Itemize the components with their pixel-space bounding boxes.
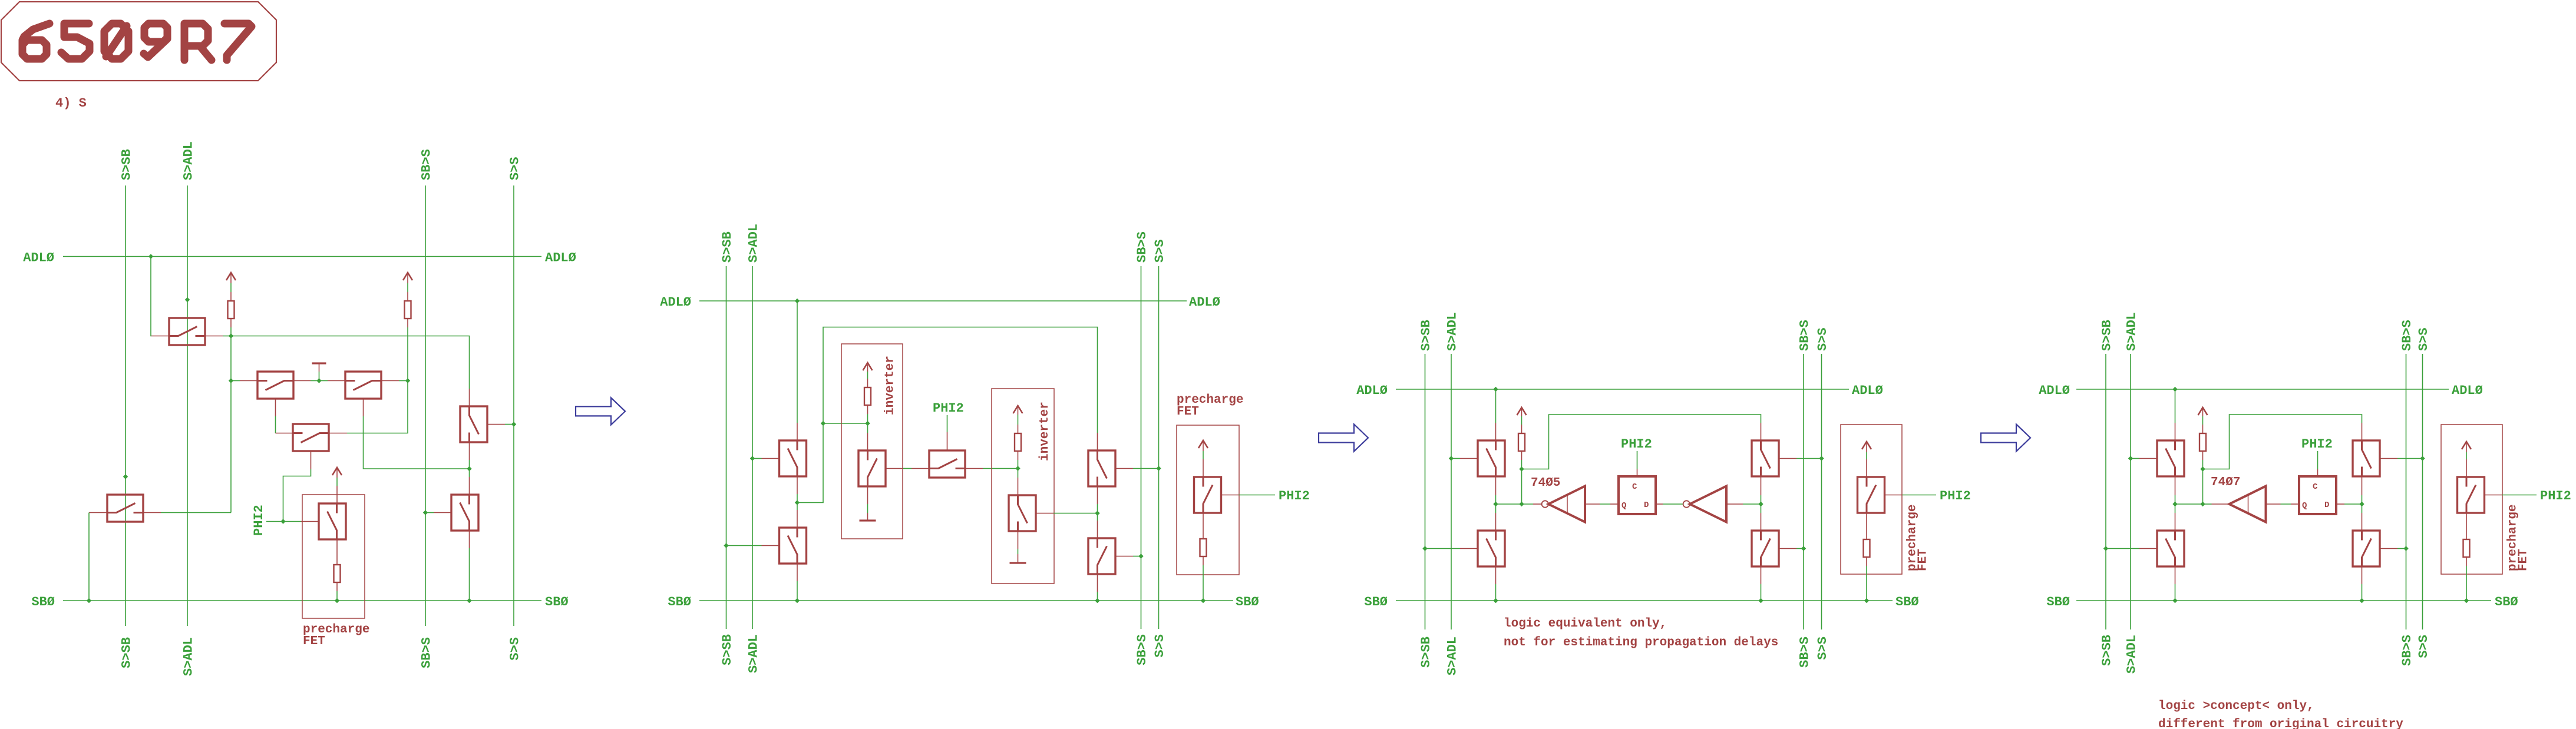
- junction node S between Q10 Q11: [795, 500, 800, 505]
- wire Q10 gate to S>ADL: [752, 458, 762, 459]
- svg-text:PHI2: PHI2: [1279, 489, 1310, 503]
- junction upper-left gate on S>ADL: [2128, 456, 2133, 460]
- wire upper-left gate to S>ADL: [2131, 458, 2139, 459]
- wire Q11 bottom to SB0: [797, 564, 798, 581]
- svg-text:S>ADL: S>ADL: [181, 141, 196, 180]
- wire upper-right gate to S>S: [1779, 458, 1796, 459]
- wire ADL0 down to upper-left pass: [2175, 389, 2176, 423]
- svg-text:ADLØ: ADLØ: [2039, 383, 2070, 398]
- pass transistor lower-right (gate SB>S): [2353, 531, 2380, 566]
- pull-up resistor R1: [228, 301, 235, 319]
- wire Q16 bottom to SB0: [1097, 574, 1098, 592]
- net S>S vertical wire (panel 1): [513, 185, 514, 626]
- svg-text:PHI2: PHI2: [2540, 489, 2571, 503]
- svg-text:D: D: [2324, 501, 2329, 510]
- wire precharge resistor to SB0: [1866, 557, 1867, 566]
- junction on ADL0 at Q1 branch: [148, 254, 153, 259]
- wire PHI2 label to Q13 gate: [947, 415, 948, 432]
- pass transistor Q3: [257, 372, 293, 399]
- pass transistor upper-right (gate S>S): [1752, 440, 1779, 476]
- wire upper-right to lower-right: [2362, 476, 2363, 495]
- inverter 1 pull-up arrow: [863, 363, 873, 370]
- junction left column sense node: [2172, 502, 2177, 506]
- junction SB0 precharge: [335, 598, 339, 603]
- junction upper-right gate on S>S: [1819, 456, 1824, 460]
- svg-text:SBØ: SBØ: [1895, 595, 1919, 609]
- wire Q6 gate to S>S: [487, 424, 505, 425]
- wire lower-left gate to S>SB: [2106, 548, 2139, 549]
- wire ADL0 down to Q10 top: [797, 301, 798, 423]
- junction lower-left gate on S>SB: [1422, 546, 1427, 551]
- wire inverter2 node down to FET: [1018, 469, 1019, 478]
- svg-text:SB>S: SB>S: [420, 149, 434, 180]
- svg-text:ADLØ: ADLØ: [23, 251, 54, 266]
- svg-text:S>S: S>S: [2416, 635, 2431, 658]
- net SB0 rail (panel 2): [699, 600, 1233, 601]
- wire node N1 column down to Q2 drain: [230, 381, 232, 513]
- wire upper-right to lower-right: [1761, 476, 1762, 495]
- svg-text:74Ø7: 74Ø7: [2211, 476, 2240, 489]
- wire latch to right column: [2336, 503, 2344, 505]
- wire node to buffer input: [2203, 503, 2212, 505]
- pass transistor Q13 (gate PHI2): [929, 450, 965, 478]
- svg-text:S>SB: S>SB: [720, 231, 735, 263]
- junction SB0 left column: [2172, 598, 2177, 603]
- junction inverter1 resistor node: [865, 421, 870, 426]
- junction pull-up node: [1519, 466, 1524, 471]
- wire Q1 drain to node N1: [205, 336, 223, 337]
- junction SB0 precharge: [2464, 598, 2469, 603]
- wire lower-left gate to S>SB: [1425, 548, 1461, 549]
- wire R3 to SB0: [336, 582, 338, 591]
- junction Q1 gate pin on S>ADL: [185, 297, 190, 302]
- wire precharge resistor to SB0: [2466, 557, 2467, 566]
- precharge arrow (panel 2): [1198, 440, 1208, 448]
- wire inverter1 node down to FET: [867, 423, 868, 433]
- svg-text:FET: FET: [1177, 405, 1199, 419]
- junction node N2: [405, 378, 410, 383]
- junction upper-left gate on S>ADL: [1449, 456, 1454, 460]
- junction node T: [316, 378, 321, 383]
- precharge resistor (panel 2): [1200, 539, 1207, 556]
- svg-text:logic equivalent only,: logic equivalent only,: [1504, 617, 1667, 631]
- precharge FET outline box (panel 2): [1177, 425, 1239, 575]
- inverter 1 outline box: [841, 344, 903, 539]
- svg-text:ADLØ: ADLØ: [1852, 383, 1883, 398]
- wire lower-left pass to SB0: [2175, 566, 2176, 584]
- net SB>S vertical wire (panel 1): [425, 185, 426, 626]
- svg-text:S>ADL: S>ADL: [2125, 312, 2139, 351]
- buffer A (7407): [2230, 486, 2266, 522]
- junction SB0 precharge: [1864, 598, 1869, 603]
- wire Q3 gate down to Q5 source: [275, 399, 276, 416]
- svg-text:S>ADL: S>ADL: [181, 637, 196, 676]
- wire latch clock to PHI2 label: [1637, 469, 1638, 476]
- wire upper-right gate to S>S: [2380, 458, 2397, 459]
- svg-text:logic >concept< only,: logic >concept< only,: [2158, 700, 2314, 713]
- svg-text:PHI2: PHI2: [1940, 489, 1971, 503]
- wire Q7 gate to SB>S: [434, 512, 451, 513]
- junction Q11 gate on S>SB: [724, 543, 728, 548]
- wire Q5 gate down to PHI2 net: [311, 451, 312, 469]
- svg-text:SB>S: SB>S: [420, 637, 434, 668]
- junction right column sense node: [1758, 502, 1763, 506]
- junction pull-up node: [2200, 466, 2205, 471]
- precharge FET arrow: [332, 468, 342, 475]
- junction inverter1 node loop: [821, 421, 825, 426]
- net SB0 rail (panel 1): [63, 600, 541, 601]
- junction node N1: [229, 333, 233, 338]
- svg-text:S>SB: S>SB: [120, 149, 134, 180]
- svg-text:S>ADL: S>ADL: [1445, 312, 1460, 351]
- logo text 6509R7: [22, 24, 49, 59]
- pull-up arrow: [1517, 407, 1527, 415]
- svg-text:S>ADL: S>ADL: [747, 224, 761, 263]
- net S>SB vertical wire (panel 2): [726, 266, 727, 629]
- pass transistor Q15 (gate S>S): [1088, 450, 1115, 486]
- wire Q14 bottom to ground: [1018, 531, 1019, 549]
- wire resistor to node: [2202, 451, 2204, 460]
- wire R1 bottom to node N1: [230, 319, 232, 327]
- pass transistor Q7 (gate SB>S): [451, 495, 478, 531]
- net SB0 rail (panel 4): [2076, 600, 2491, 601]
- svg-text:SBØ: SBØ: [2046, 595, 2070, 609]
- junction ADL0 left column: [1493, 387, 1498, 392]
- pass transistor lower-right (gate SB>S): [1752, 531, 1779, 566]
- precharge arrow (panel 4): [2462, 442, 2471, 449]
- inverter A (7405) with bubble: [1542, 501, 1548, 507]
- svg-text:Q: Q: [2302, 501, 2307, 511]
- svg-text:S>ADL: S>ADL: [1445, 637, 1460, 675]
- junction PHI2 net: [280, 519, 285, 523]
- wire Q11 gate to S>SB: [726, 545, 762, 546]
- wire Q15 bottom to Q16 top: [1097, 486, 1098, 504]
- svg-text:PHI2: PHI2: [2301, 437, 2333, 452]
- pass transistor Q2 (gate S>SB): [107, 495, 143, 522]
- feedback wire node S loop to right column: [797, 327, 1098, 503]
- inverter 2 pull-up arrow: [1013, 406, 1023, 413]
- net S>SB vertical wire (panel 4): [2105, 354, 2106, 629]
- svg-text:ADLØ: ADLØ: [660, 295, 691, 310]
- svg-text:FET: FET: [2517, 549, 2531, 571]
- wire upper-left pass to lower-left pass: [1495, 476, 1497, 495]
- wire lower-right gate to SB>S: [1779, 548, 1796, 549]
- wire precharge gate to PHI2 label: [2485, 495, 2502, 496]
- svg-text:4) S: 4) S: [55, 96, 87, 111]
- svg-text:SB>S: SB>S: [1798, 320, 1812, 351]
- latch cell (C Q D): [1619, 476, 1656, 514]
- precharge resistor (panel 3): [1864, 539, 1870, 557]
- pull-up arrow: [2198, 407, 2208, 415]
- net S>S vertical wire (panel 2): [1158, 266, 1160, 629]
- block arrow 1: [576, 397, 625, 425]
- net S>ADL vertical wire (panel 2): [752, 266, 753, 629]
- svg-text:SBØ: SBØ: [1364, 595, 1388, 609]
- junction SB0 right column: [1758, 598, 1763, 603]
- svg-text:SBØ: SBØ: [1236, 595, 1259, 609]
- junction right column sense node: [2359, 502, 2364, 506]
- pass transistor Q1 (gate S>ADL): [169, 318, 205, 345]
- svg-text:SB>S: SB>S: [2400, 635, 2415, 666]
- wire Q2 source to SB0: [89, 512, 107, 513]
- pass transistor Q16 (gate SB>S): [1088, 538, 1115, 574]
- junction SB0 right column (panel 2): [1095, 598, 1099, 603]
- junction node N1 lower: [229, 378, 233, 383]
- wire node N2 down to Q5 drain: [347, 381, 408, 433]
- svg-text:PHI2: PHI2: [933, 401, 964, 416]
- wire latch to inverter B: [1656, 503, 1663, 505]
- svg-text:S>S: S>S: [1815, 327, 1830, 351]
- svg-text:SBØ: SBØ: [2495, 595, 2518, 609]
- block arrow 3: [1981, 425, 2030, 452]
- junction left column sense node: [1493, 502, 1498, 506]
- net S>SB vertical wire (panel 1): [125, 185, 126, 626]
- net SB0 rail (panel 3): [1396, 600, 1893, 601]
- junction lower-right gate on SB>S: [2403, 546, 2408, 551]
- svg-text:SB>S: SB>S: [2400, 320, 2415, 351]
- junction ADL0 column (panel 2): [795, 299, 800, 303]
- net SB>S vertical wire (panel 3): [1803, 354, 1804, 629]
- wire Q7 bottom to SB0: [469, 531, 470, 548]
- inverter B with bubble: [1683, 501, 1690, 507]
- wire Q12 bottom to ground: [867, 486, 868, 504]
- svg-text:S>S: S>S: [508, 157, 523, 180]
- inverter 2 FET Q14: [1009, 495, 1036, 531]
- svg-text:S>S: S>S: [1152, 239, 1167, 263]
- block arrow 2: [1319, 425, 1368, 452]
- inverter 2 ground: [1010, 562, 1026, 564]
- inverter 2 outline box: [992, 389, 1054, 584]
- pass transistor Q5: [293, 424, 329, 451]
- wire lower-left pass to SB0: [1495, 566, 1497, 584]
- wire Q14 gate to right column node: [1036, 513, 1053, 514]
- net ADL0 rail (panel 4): [2076, 389, 2449, 390]
- precharge resistor R3: [334, 565, 341, 582]
- net S>S vertical wire (panel 4): [2422, 354, 2423, 629]
- svg-text:S>SB: S>SB: [120, 637, 134, 668]
- pull-up R1 arrow: [226, 273, 236, 280]
- svg-text:SBØ: SBØ: [31, 595, 55, 609]
- wire node N1 down to Q3 source: [230, 336, 232, 381]
- svg-text:C: C: [2313, 482, 2318, 492]
- wire Q17 bottom to resistor: [1203, 513, 1204, 539]
- wire Q15 gate to S>S: [1115, 468, 1133, 469]
- junction inverter2 input node: [1015, 466, 1020, 470]
- wire node T to Q4 source: [319, 380, 328, 382]
- svg-text:S>S: S>S: [2416, 327, 2431, 351]
- svg-text:S>SB: S>SB: [1419, 320, 1434, 351]
- wire Q3 drain to node T: [293, 380, 311, 382]
- svg-text:C: C: [1632, 482, 1637, 492]
- wire triangle A to latch: [1585, 503, 1600, 505]
- wire resistor to node: [1521, 451, 1523, 460]
- junction SB0 left: [87, 598, 91, 603]
- svg-text:SB>S: SB>S: [1798, 637, 1812, 668]
- junction pull-up sense row: [1519, 502, 1524, 506]
- logo 6509R7 octagon border: [1, 2, 276, 81]
- net PHI2 wire (panel 1): [266, 521, 301, 522]
- junction Q2 gate pin on S>SB: [123, 474, 128, 479]
- svg-text:ADLØ: ADLØ: [1356, 383, 1388, 398]
- svg-text:S>SB: S>SB: [2100, 635, 2115, 666]
- wire inverter2 resistor to node: [1018, 451, 1019, 460]
- junction right column mid node: [1095, 511, 1099, 515]
- pass transistor Q10 (gate S>ADL): [780, 440, 807, 476]
- net S>ADL vertical wire (panel 3): [1451, 354, 1452, 629]
- wire Q12 gate to PHI2 pass: [886, 468, 903, 469]
- svg-text:FET: FET: [303, 635, 325, 648]
- net SB>S vertical wire (panel 4): [2406, 354, 2407, 629]
- wire Q13 drain to inverter2 node: [965, 468, 983, 469]
- svg-text:not for estimating propagation: not for estimating propagation delays: [1504, 636, 1778, 650]
- wire precharge gate to PHI2 label: [1885, 495, 1903, 496]
- svg-text:SBØ: SBØ: [545, 595, 569, 609]
- pull-up R2 arrow: [403, 273, 412, 280]
- net ADL0 rail (panel 3): [1396, 389, 1849, 390]
- pass transistor Q11 (gate S>SB): [780, 528, 807, 564]
- junction pull-up sense row: [2200, 502, 2205, 506]
- svg-text:FET: FET: [1917, 549, 1930, 571]
- svg-text:different from original circui: different from original circuitry: [2158, 718, 2403, 729]
- junction node N3: [467, 466, 471, 471]
- svg-text:PHI2: PHI2: [252, 505, 266, 536]
- wire node N1 across to right column: [231, 336, 470, 389]
- wire Q4 drain to node N2: [381, 380, 399, 382]
- wire sense row: [2175, 503, 2203, 505]
- inverter 2 resistor: [1015, 433, 1021, 451]
- feedback loop wire to right column: [2203, 415, 2362, 469]
- feedback loop wire to right column: [1522, 415, 1761, 469]
- svg-text:S>S: S>S: [508, 637, 523, 661]
- svg-text:S>S: S>S: [1815, 637, 1830, 660]
- terminator T symbol: [312, 362, 326, 364]
- junction Q16 gate on SB>S: [1138, 554, 1143, 558]
- junction upper-right gate on S>S: [2420, 456, 2425, 460]
- svg-text:74Ø5: 74Ø5: [1531, 476, 1560, 490]
- pass transistor Q4: [345, 372, 381, 399]
- wire ADL0 branch down to Q1 source: [151, 257, 151, 336]
- svg-text:S>ADL: S>ADL: [2125, 635, 2139, 674]
- wire node to inverter A input: [1522, 503, 1534, 505]
- wire inverter1 resistor to node: [867, 405, 868, 414]
- wire Q17 gate to PHI2 label: [1221, 495, 1239, 496]
- pull-up resistor: [2199, 433, 2206, 451]
- precharge arrow (panel 3): [1862, 442, 1871, 449]
- net SB>S vertical wire (panel 2): [1141, 266, 1142, 629]
- svg-text:ADLØ: ADLØ: [545, 251, 576, 266]
- svg-text:inverter: inverter: [884, 356, 897, 415]
- pass transistor lower-left (gate S>SB): [2157, 531, 2184, 566]
- svg-text:S>S: S>S: [1152, 634, 1167, 658]
- junction SB0 left column: [1493, 598, 1498, 603]
- svg-text:SB>S: SB>S: [1135, 231, 1150, 263]
- net ADL0 rail (panel 1): [63, 256, 541, 257]
- svg-text:S>SB: S>SB: [2100, 320, 2115, 351]
- latch cell (C Q D): [2299, 476, 2336, 514]
- pull-up resistor: [1518, 433, 1525, 451]
- inverter 1 FET Q12: [858, 450, 886, 486]
- precharge FET pass transistor Q8 (gate PHI2): [319, 503, 346, 539]
- svg-text:D: D: [1644, 501, 1649, 510]
- wire upper-left gate to S>ADL: [1451, 458, 1460, 459]
- svg-text:ADLØ: ADLØ: [2452, 383, 2483, 398]
- junction Q6 gate on S>S: [511, 422, 516, 426]
- junction Q10 gate on S>ADL: [750, 456, 755, 460]
- precharge pass transistor (gate PHI2, panel 4): [2458, 477, 2485, 513]
- wire resistor to SB0 (panel 2): [1203, 556, 1204, 565]
- precharge FET outline box (panel 4): [2441, 425, 2502, 574]
- pass transistor upper-left (gate S>ADL): [1478, 440, 1505, 476]
- precharge pass transistor Q17 (gate PHI2): [1194, 477, 1221, 513]
- net ADL0 rail (panel 2): [699, 300, 1187, 301]
- svg-text:Q: Q: [1621, 501, 1626, 511]
- wire upper-left pass to lower-left pass: [2175, 476, 2176, 495]
- net S>S vertical wire (panel 3): [1821, 354, 1822, 629]
- wire precharge pass to resistor: [2466, 513, 2467, 539]
- svg-text:S>ADL: S>ADL: [747, 634, 761, 673]
- inverter 1 ground: [860, 519, 876, 521]
- wire ADL0 down to upper-left pass: [1495, 389, 1497, 423]
- precharge pass transistor (gate PHI2, panel 3): [1858, 477, 1885, 513]
- pass transistor upper-left (gate S>ADL): [2157, 440, 2184, 476]
- wire Q4 gate down to node N3: [363, 399, 364, 416]
- wire lower-right to SB0: [2362, 566, 2363, 584]
- net S>SB vertical wire (panel 3): [1425, 354, 1426, 629]
- inverter 1 resistor: [864, 387, 871, 405]
- pass transistor lower-left (gate S>SB): [1478, 531, 1505, 566]
- svg-text:S>SB: S>SB: [1419, 637, 1434, 668]
- precharge resistor (panel 4): [2463, 539, 2470, 557]
- junction Q7 gate on SB>S: [423, 510, 428, 515]
- svg-text:SBØ: SBØ: [668, 595, 691, 609]
- wire latch clock to PHI2 label: [2317, 469, 2319, 476]
- wire inverter B to right column: [1726, 503, 1743, 505]
- svg-text:PHI2: PHI2: [1621, 437, 1652, 452]
- wire lower-right to SB0: [1761, 566, 1762, 584]
- net S>ADL vertical wire (panel 4): [2130, 354, 2131, 629]
- pass transistor upper-right (gate S>S): [2353, 440, 2380, 476]
- wire inverter1 output to node S loop: [823, 423, 868, 424]
- pull-up resistor R2: [405, 301, 411, 319]
- junction Q15 gate on S>S: [1156, 466, 1161, 470]
- wire R2 bottom to node N2: [407, 319, 408, 327]
- wire Q6 bottom to node N3: [469, 442, 470, 460]
- svg-text:SB>S: SB>S: [1135, 634, 1150, 665]
- junction SB0 right column: [467, 598, 471, 603]
- junction SB0 left column (panel 2): [795, 598, 800, 603]
- precharge FET outline box (panel 3): [1841, 425, 1902, 574]
- svg-text:ADLØ: ADLØ: [1189, 295, 1220, 310]
- junction lower-left gate on S>SB: [2103, 546, 2108, 551]
- wire sense row: [1496, 503, 1522, 505]
- svg-text:inverter: inverter: [1038, 402, 1052, 461]
- junction SB0 right column: [2359, 598, 2364, 603]
- junction ADL0 left column: [2172, 387, 2177, 392]
- wire Q8 bottom to resistor: [336, 539, 338, 565]
- wire triangle A to latch: [2266, 503, 2281, 505]
- junction lower-right gate on SB>S: [1801, 546, 1806, 551]
- wire Q10 bottom to Q11 top (node S): [797, 476, 798, 494]
- svg-text:S>SB: S>SB: [720, 634, 735, 665]
- junction SB0 precharge (panel 2): [1201, 598, 1206, 603]
- wire precharge pass to resistor: [1866, 513, 1867, 539]
- wire Q16 gate to SB>S: [1115, 556, 1133, 557]
- wire lower-right gate to SB>S: [2380, 548, 2397, 549]
- precharge FET outline box: [302, 495, 365, 618]
- pass transistor Q6 (gate S>S): [460, 406, 487, 442]
- net S>ADL vertical wire (panel 1): [187, 185, 188, 626]
